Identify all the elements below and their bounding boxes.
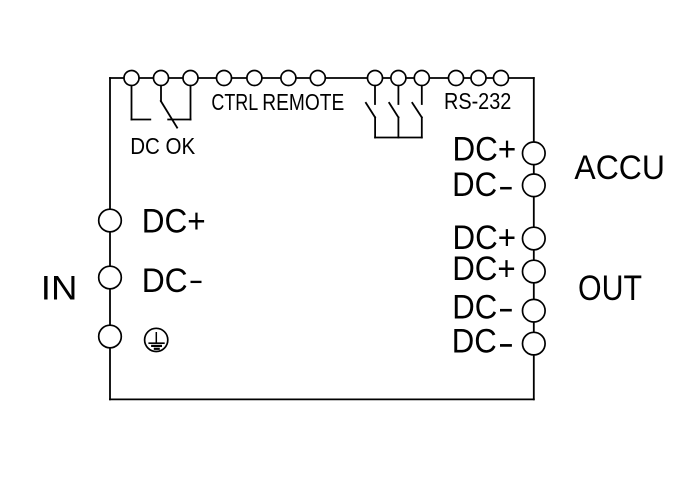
terminal: REMOTE b bbox=[310, 71, 325, 86]
svg-text:DC+: DC+ bbox=[452, 250, 516, 288]
terminal: CTRL b bbox=[247, 71, 262, 86]
terminal: ACCU DC+ bbox=[523, 142, 546, 165]
svg-text:CTRL: CTRL bbox=[211, 89, 258, 115]
wire: enclosure top border bbox=[110, 77, 534, 79]
switch S1 (remote config contact) bbox=[366, 86, 375, 138]
terminal: RS-232 b bbox=[471, 71, 486, 86]
terminal: RS-232 a bbox=[449, 71, 464, 86]
label: IN DC- bbox=[142, 262, 202, 300]
svg-text:OUT: OUT bbox=[578, 268, 642, 308]
relay changeover contact DC OK bbox=[132, 86, 191, 128]
terminal: OUT DC- 2 bbox=[523, 332, 546, 355]
svg-text:DC: DC bbox=[452, 166, 497, 204]
terminal: REMOTE a bbox=[281, 71, 296, 86]
terminal: ACCU DC- bbox=[523, 174, 546, 197]
svg-text:REMOTE: REMOTE bbox=[262, 89, 344, 115]
switch S3 (remote config contact) bbox=[412, 86, 422, 138]
svg-text:DC: DC bbox=[452, 323, 497, 361]
label: OUT DC- 1 bbox=[452, 288, 512, 326]
terminal: OUT DC- 1 bbox=[523, 299, 546, 322]
protective earth symbol bbox=[145, 328, 168, 351]
switch S2 (remote config contact) bbox=[389, 86, 398, 138]
terminal: RS-232 c bbox=[494, 71, 509, 86]
terminal: IN DC+ bbox=[99, 209, 122, 232]
wire: switch common bus bbox=[375, 137, 422, 139]
wire: enclosure right border bbox=[533, 78, 535, 399]
svg-text:DC OK: DC OK bbox=[130, 133, 195, 159]
terminal: DC OK common bbox=[154, 71, 169, 86]
label: OUT DC- 2 bbox=[452, 323, 512, 361]
svg-text:DC: DC bbox=[452, 288, 497, 326]
wire: enclosure bottom border bbox=[110, 398, 534, 400]
terminal: config switch 3 bbox=[414, 71, 429, 86]
terminal: OUT DC+ 2 bbox=[523, 260, 546, 283]
terminal: DC OK contact b bbox=[183, 71, 198, 86]
wire: enclosure left border bbox=[109, 78, 111, 399]
svg-text:DC+: DC+ bbox=[453, 131, 517, 169]
terminal: IN PE bbox=[99, 325, 122, 348]
svg-text:RS-232: RS-232 bbox=[444, 88, 511, 114]
svg-text:ACCU: ACCU bbox=[574, 149, 665, 187]
terminal: config switch 1 bbox=[368, 71, 383, 86]
terminal: CTRL a bbox=[217, 71, 232, 86]
svg-text:DC: DC bbox=[142, 262, 188, 300]
terminal: DC OK contact a bbox=[124, 71, 139, 86]
label: ACCU DC- bbox=[452, 166, 512, 204]
terminal: IN DC- bbox=[99, 266, 122, 289]
svg-text:DC+: DC+ bbox=[142, 202, 206, 240]
terminal: OUT DC+ 1 bbox=[523, 227, 546, 250]
terminal: config switch 2 bbox=[391, 71, 406, 86]
svg-text:IN: IN bbox=[41, 270, 78, 308]
